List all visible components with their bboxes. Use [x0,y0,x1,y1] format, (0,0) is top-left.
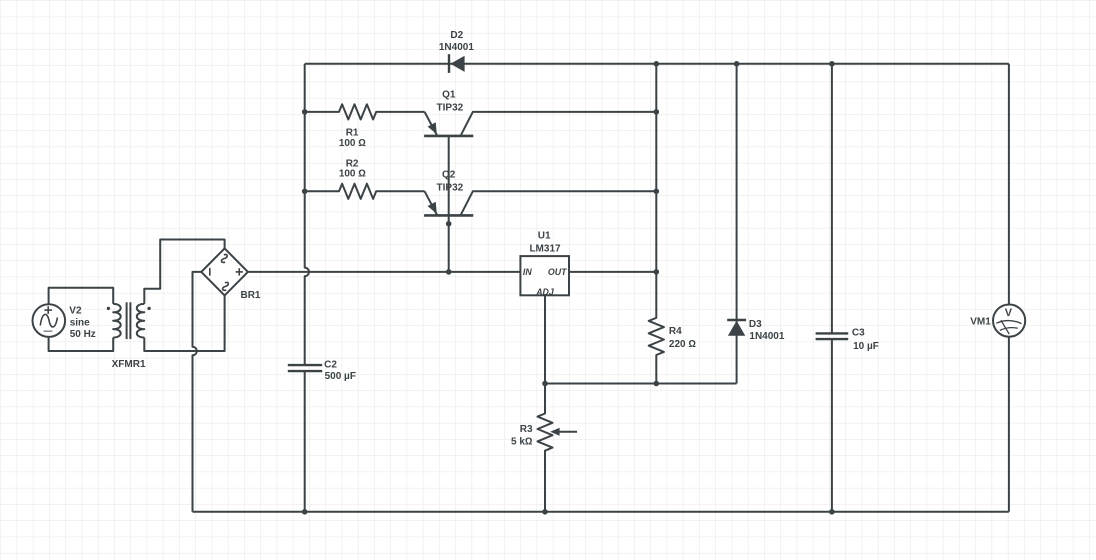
svg-text:ADJ: ADJ [535,287,555,297]
svg-text:VM1: VM1 [970,317,991,328]
svg-text:R3: R3 [520,424,533,435]
svg-text:U1: U1 [538,231,551,242]
svg-text:500 µF: 500 µF [325,371,356,382]
svg-text:C3: C3 [852,328,865,339]
svg-text:V: V [1005,307,1013,319]
svg-text:50 Hz: 50 Hz [70,329,96,340]
svg-text:R4: R4 [669,326,682,337]
svg-text:V2: V2 [69,305,82,316]
svg-text:TIP32: TIP32 [437,103,464,114]
svg-text:1N4001: 1N4001 [439,42,474,53]
svg-text:C2: C2 [324,359,337,370]
svg-text:BR1: BR1 [240,290,260,301]
svg-text:XFMR1: XFMR1 [112,359,146,370]
svg-text:TIP32: TIP32 [437,183,464,194]
svg-text:LM317: LM317 [529,244,561,255]
svg-text:sine: sine [70,318,90,329]
svg-text:100 Ω: 100 Ω [339,168,366,179]
svg-text:1N4001: 1N4001 [749,331,784,342]
svg-text:OUT: OUT [548,267,567,277]
svg-text:IN: IN [523,267,532,277]
svg-text:Q1: Q1 [442,90,456,101]
svg-text:D3: D3 [749,319,762,330]
svg-text:220 Ω: 220 Ω [669,339,696,350]
svg-text:10 µF: 10 µF [853,341,879,352]
svg-text:100 Ω: 100 Ω [339,138,366,149]
svg-text:D2: D2 [450,30,463,41]
svg-text:5 kΩ: 5 kΩ [511,436,533,447]
svg-text:Q2: Q2 [442,170,456,181]
